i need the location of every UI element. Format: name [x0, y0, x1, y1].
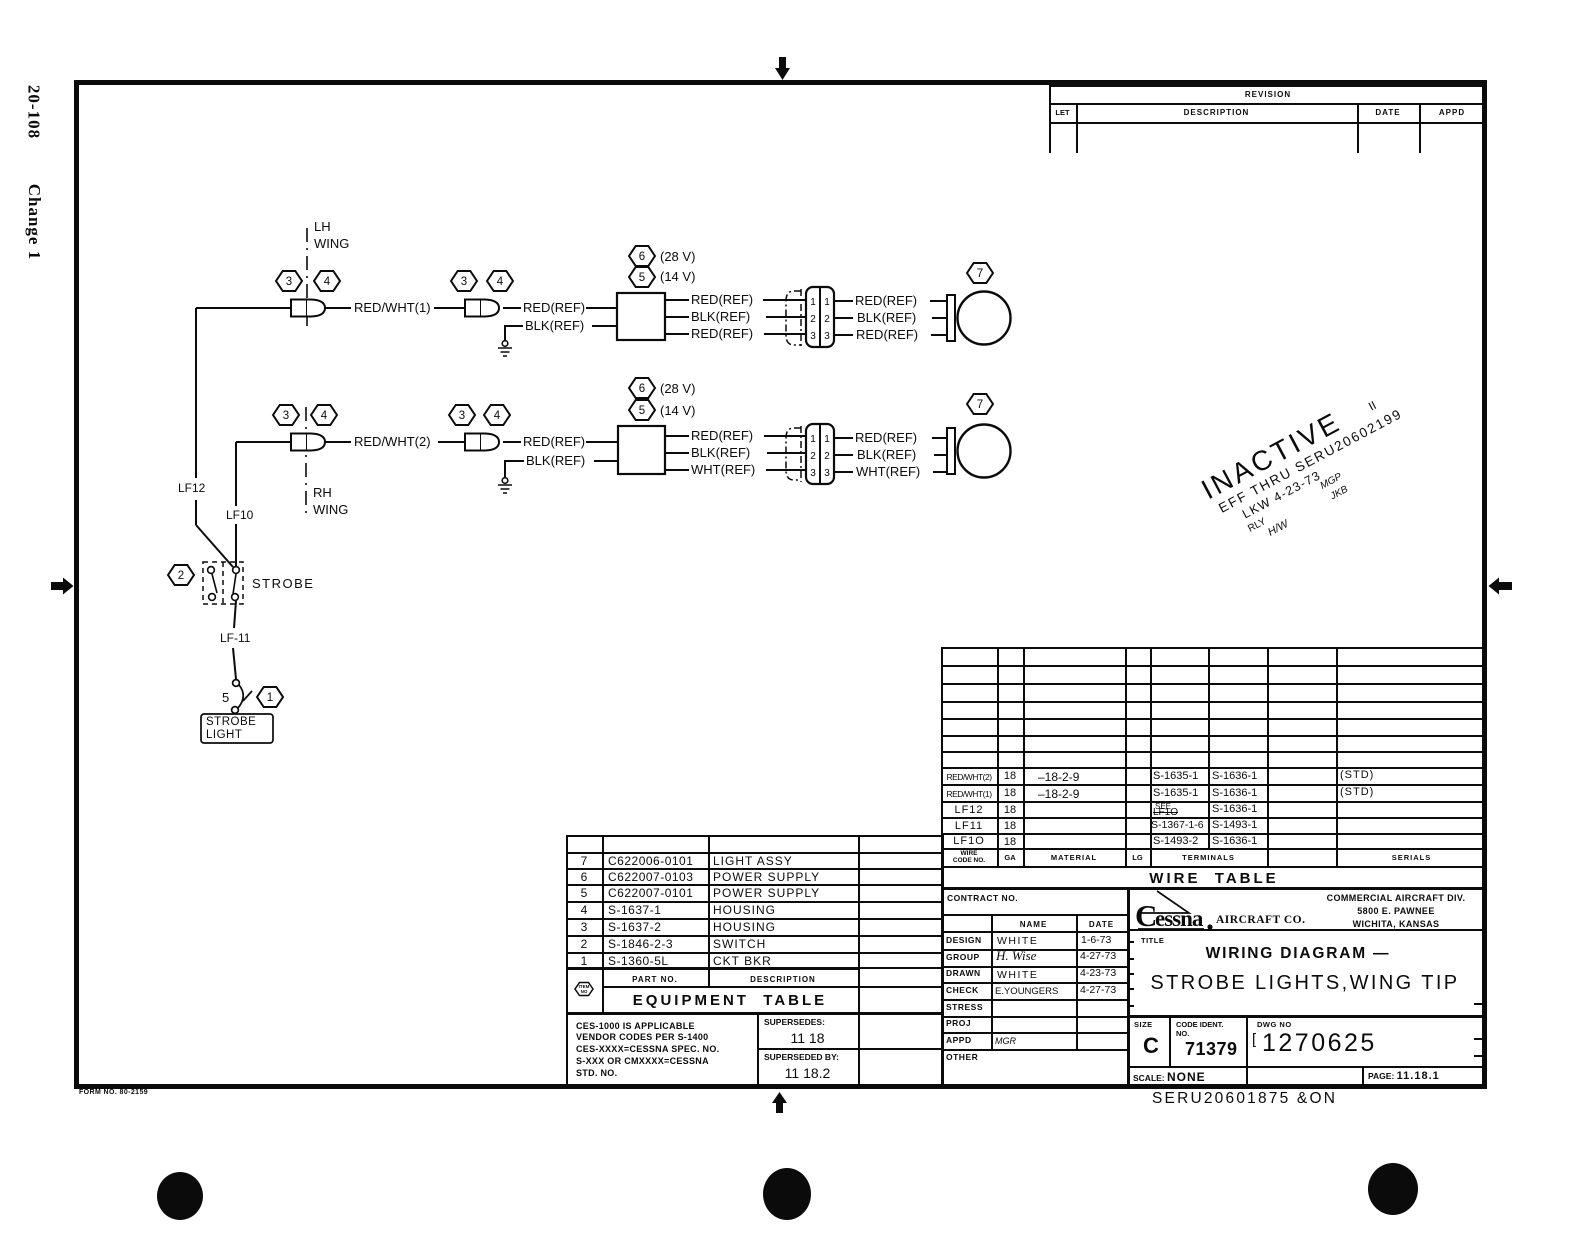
svg-text:BLK(REF): BLK(REF) — [857, 447, 916, 462]
wire RED/WHT(2) segment — [325, 441, 465, 443]
svg-text:3: 3 — [824, 468, 830, 479]
sheet margin text 20-108 — [24, 75, 44, 150]
wire BLK(REF) branch to ground circuit 1 — [505, 326, 617, 343]
wire LF12 diagonal to switch — [196, 525, 233, 567]
strobe light destination box — [201, 714, 273, 743]
svg-text:7: 7 — [977, 399, 983, 411]
svg-text:BLK(REF): BLK(REF) — [857, 310, 916, 325]
svg-text:6: 6 — [639, 383, 645, 395]
svg-text:BLK(REF): BLK(REF) — [526, 453, 585, 468]
svg-text:BLK(REF): BLK(REF) — [525, 318, 584, 333]
form number — [79, 1089, 148, 1096]
plug pin numbers — [810, 297, 830, 479]
svg-text:(28 V): (28 V) — [660, 249, 695, 264]
svg-text:2: 2 — [178, 570, 184, 582]
power supply 2 output wires — [665, 436, 806, 470]
callout hex 5 c2 — [629, 400, 655, 420]
svg-text:5: 5 — [222, 690, 229, 705]
callout hex 6 c1 — [629, 246, 655, 266]
registration arrow bottom — [772, 1092, 787, 1113]
svg-text:1: 1 — [810, 434, 816, 445]
svg-text:WHT(REF): WHT(REF) — [691, 462, 755, 477]
svg-text:(14 V): (14 V) — [660, 403, 695, 418]
svg-text:LIGHT: LIGHT — [206, 729, 242, 741]
ground G2 — [498, 478, 512, 493]
svg-text:NO: NO — [581, 989, 588, 994]
callout hex 3 c2 outboard — [449, 405, 475, 425]
callout hex 3 c1 inboard — [276, 271, 302, 291]
strobe light assembly 1 — [947, 292, 1011, 345]
switch terminals and blades — [208, 567, 240, 601]
backshell dashed capsule 1 — [786, 289, 801, 347]
wire LF-11 switch to breaker — [233, 601, 236, 679]
svg-text:LF12: LF12 — [178, 481, 206, 495]
callout hex 4 c2 inboard — [311, 405, 337, 425]
svg-text:RH: RH — [313, 485, 332, 500]
callout hex 2 switch — [168, 565, 194, 585]
svg-text:STROBE: STROBE — [252, 576, 314, 591]
connector pair circuit2 inboard — [291, 434, 325, 451]
RH wing station dashed line — [305, 407, 307, 518]
svg-text:RED/WHT(1): RED/WHT(1) — [354, 300, 431, 315]
contract and signature block — [941, 887, 1487, 890]
svg-text:3: 3 — [810, 331, 816, 342]
switch S1 dashed box — [203, 562, 243, 604]
svg-text:H/W: H/W — [1266, 517, 1292, 538]
svg-text:3: 3 — [461, 276, 467, 288]
svg-text:RED(REF): RED(REF) — [855, 293, 917, 308]
svg-text:WHT(REF): WHT(REF) — [856, 464, 920, 479]
svg-text:RED(REF): RED(REF) — [691, 326, 753, 341]
svg-text:RED(REF): RED(REF) — [523, 300, 585, 315]
svg-text:2: 2 — [824, 314, 830, 325]
registration arrow top — [775, 57, 790, 80]
svg-text:5: 5 — [639, 405, 645, 417]
circuit breaker CB1 — [232, 680, 252, 714]
wire table — [941, 647, 1487, 649]
connector pair circuit2 outboard — [465, 434, 499, 451]
callout hex 3 c2 inboard — [273, 405, 299, 425]
registration dot left — [157, 1172, 203, 1220]
callout hex 6 c2 — [629, 378, 655, 398]
callout hex 4 c1 inboard — [314, 271, 340, 291]
svg-text:II: II — [1366, 398, 1378, 413]
power supply PS1 — [617, 293, 665, 340]
callout hex 5 c1 — [629, 267, 655, 287]
callout hex 1 breaker — [257, 687, 283, 707]
svg-text:1: 1 — [810, 297, 816, 308]
svg-text:(14 V): (14 V) — [660, 269, 695, 284]
revision table — [1049, 85, 1487, 87]
wire RED(REF) into power supply 1 — [503, 307, 617, 309]
callout hex 4 c2 outboard — [484, 405, 510, 425]
equipment table — [566, 835, 941, 837]
title block — [1127, 887, 1130, 1085]
svg-text:2: 2 — [810, 314, 816, 325]
svg-text:RED(REF): RED(REF) — [856, 327, 918, 342]
svg-text:RED(REF): RED(REF) — [691, 292, 753, 307]
wire LF12 vertical drop — [195, 308, 197, 525]
connector plug P1 — [806, 287, 834, 347]
svg-text:STROBE: STROBE — [206, 716, 256, 728]
wire LF12 horizontal run circuit 1 — [196, 307, 291, 309]
svg-text:RED(REF): RED(REF) — [523, 434, 585, 449]
callout hex 3 c1 outboard — [451, 271, 477, 291]
wire LF10 vertical drop — [235, 442, 237, 566]
svg-text:4: 4 — [494, 410, 501, 422]
svg-text:BLK(REF): BLK(REF) — [691, 445, 750, 460]
wire RED/WHT(1) segment — [325, 307, 465, 309]
ground G1 — [498, 341, 512, 356]
hexagon digits — [178, 251, 983, 704]
registration dot middle — [763, 1168, 811, 1220]
svg-text:1: 1 — [267, 692, 273, 704]
connector plug P2 — [806, 424, 834, 484]
svg-text:LF10: LF10 — [226, 508, 254, 522]
callout hex 7 c1 — [967, 263, 993, 283]
svg-text:WING: WING — [313, 502, 348, 517]
power supply 1 output wires — [665, 300, 806, 334]
connector pair circuit1 inboard — [291, 300, 325, 317]
svg-text:WING: WING — [314, 236, 349, 251]
registration dot right — [1368, 1163, 1418, 1215]
handwritten serial note — [1152, 1090, 1337, 1108]
callout hex 7 c2 — [967, 394, 993, 414]
svg-text:3: 3 — [824, 331, 830, 342]
svg-text:BLK(REF): BLK(REF) — [691, 309, 750, 324]
backshell dashed capsule 2 — [786, 426, 801, 482]
connector pair circuit1 outboard — [465, 300, 499, 317]
svg-text:(28 V): (28 V) — [660, 381, 695, 396]
svg-text:RED(REF): RED(REF) — [691, 428, 753, 443]
svg-text:2: 2 — [810, 451, 816, 462]
wire LF10 horizontal run circuit 2 — [236, 441, 291, 443]
INACTIVE hand stamp — [1196, 379, 1425, 557]
svg-text:7: 7 — [977, 268, 983, 280]
svg-text:LH: LH — [314, 219, 331, 234]
registration arrow left — [51, 578, 74, 595]
svg-text:3: 3 — [283, 410, 289, 422]
svg-text:1: 1 — [824, 434, 830, 445]
svg-text:6: 6 — [639, 251, 645, 263]
svg-text:3: 3 — [810, 468, 816, 479]
svg-text:2: 2 — [824, 451, 830, 462]
strobe light assembly 2 — [947, 425, 1011, 478]
drawing border frame — [74, 80, 1487, 1089]
power supply PS2 — [618, 426, 665, 474]
callout hex 4 c1 outboard — [487, 271, 513, 291]
svg-text:RED(REF): RED(REF) — [855, 430, 917, 445]
wire BLK(REF) branch to ground circuit 2 — [505, 461, 618, 480]
svg-text:3: 3 — [286, 276, 292, 288]
LH wing station dashed line — [306, 228, 308, 331]
svg-text:4: 4 — [321, 410, 328, 422]
wires plug1 to lamp1 — [834, 301, 947, 335]
svg-text:RED/WHT(2): RED/WHT(2) — [354, 434, 431, 449]
svg-text:4: 4 — [497, 276, 504, 288]
registration arrow right — [1489, 578, 1513, 595]
wires plug2 to lamp2 — [834, 438, 947, 472]
sheet margin text Change 1 — [24, 182, 44, 262]
svg-text:3: 3 — [459, 410, 465, 422]
svg-text:LF-11: LF-11 — [220, 631, 251, 645]
svg-text:1: 1 — [824, 297, 830, 308]
svg-text:5: 5 — [639, 272, 645, 284]
svg-text:essna: essna — [1155, 906, 1204, 931]
svg-text:4: 4 — [324, 276, 331, 288]
wire RED(REF) into power supply 2 — [503, 441, 618, 443]
